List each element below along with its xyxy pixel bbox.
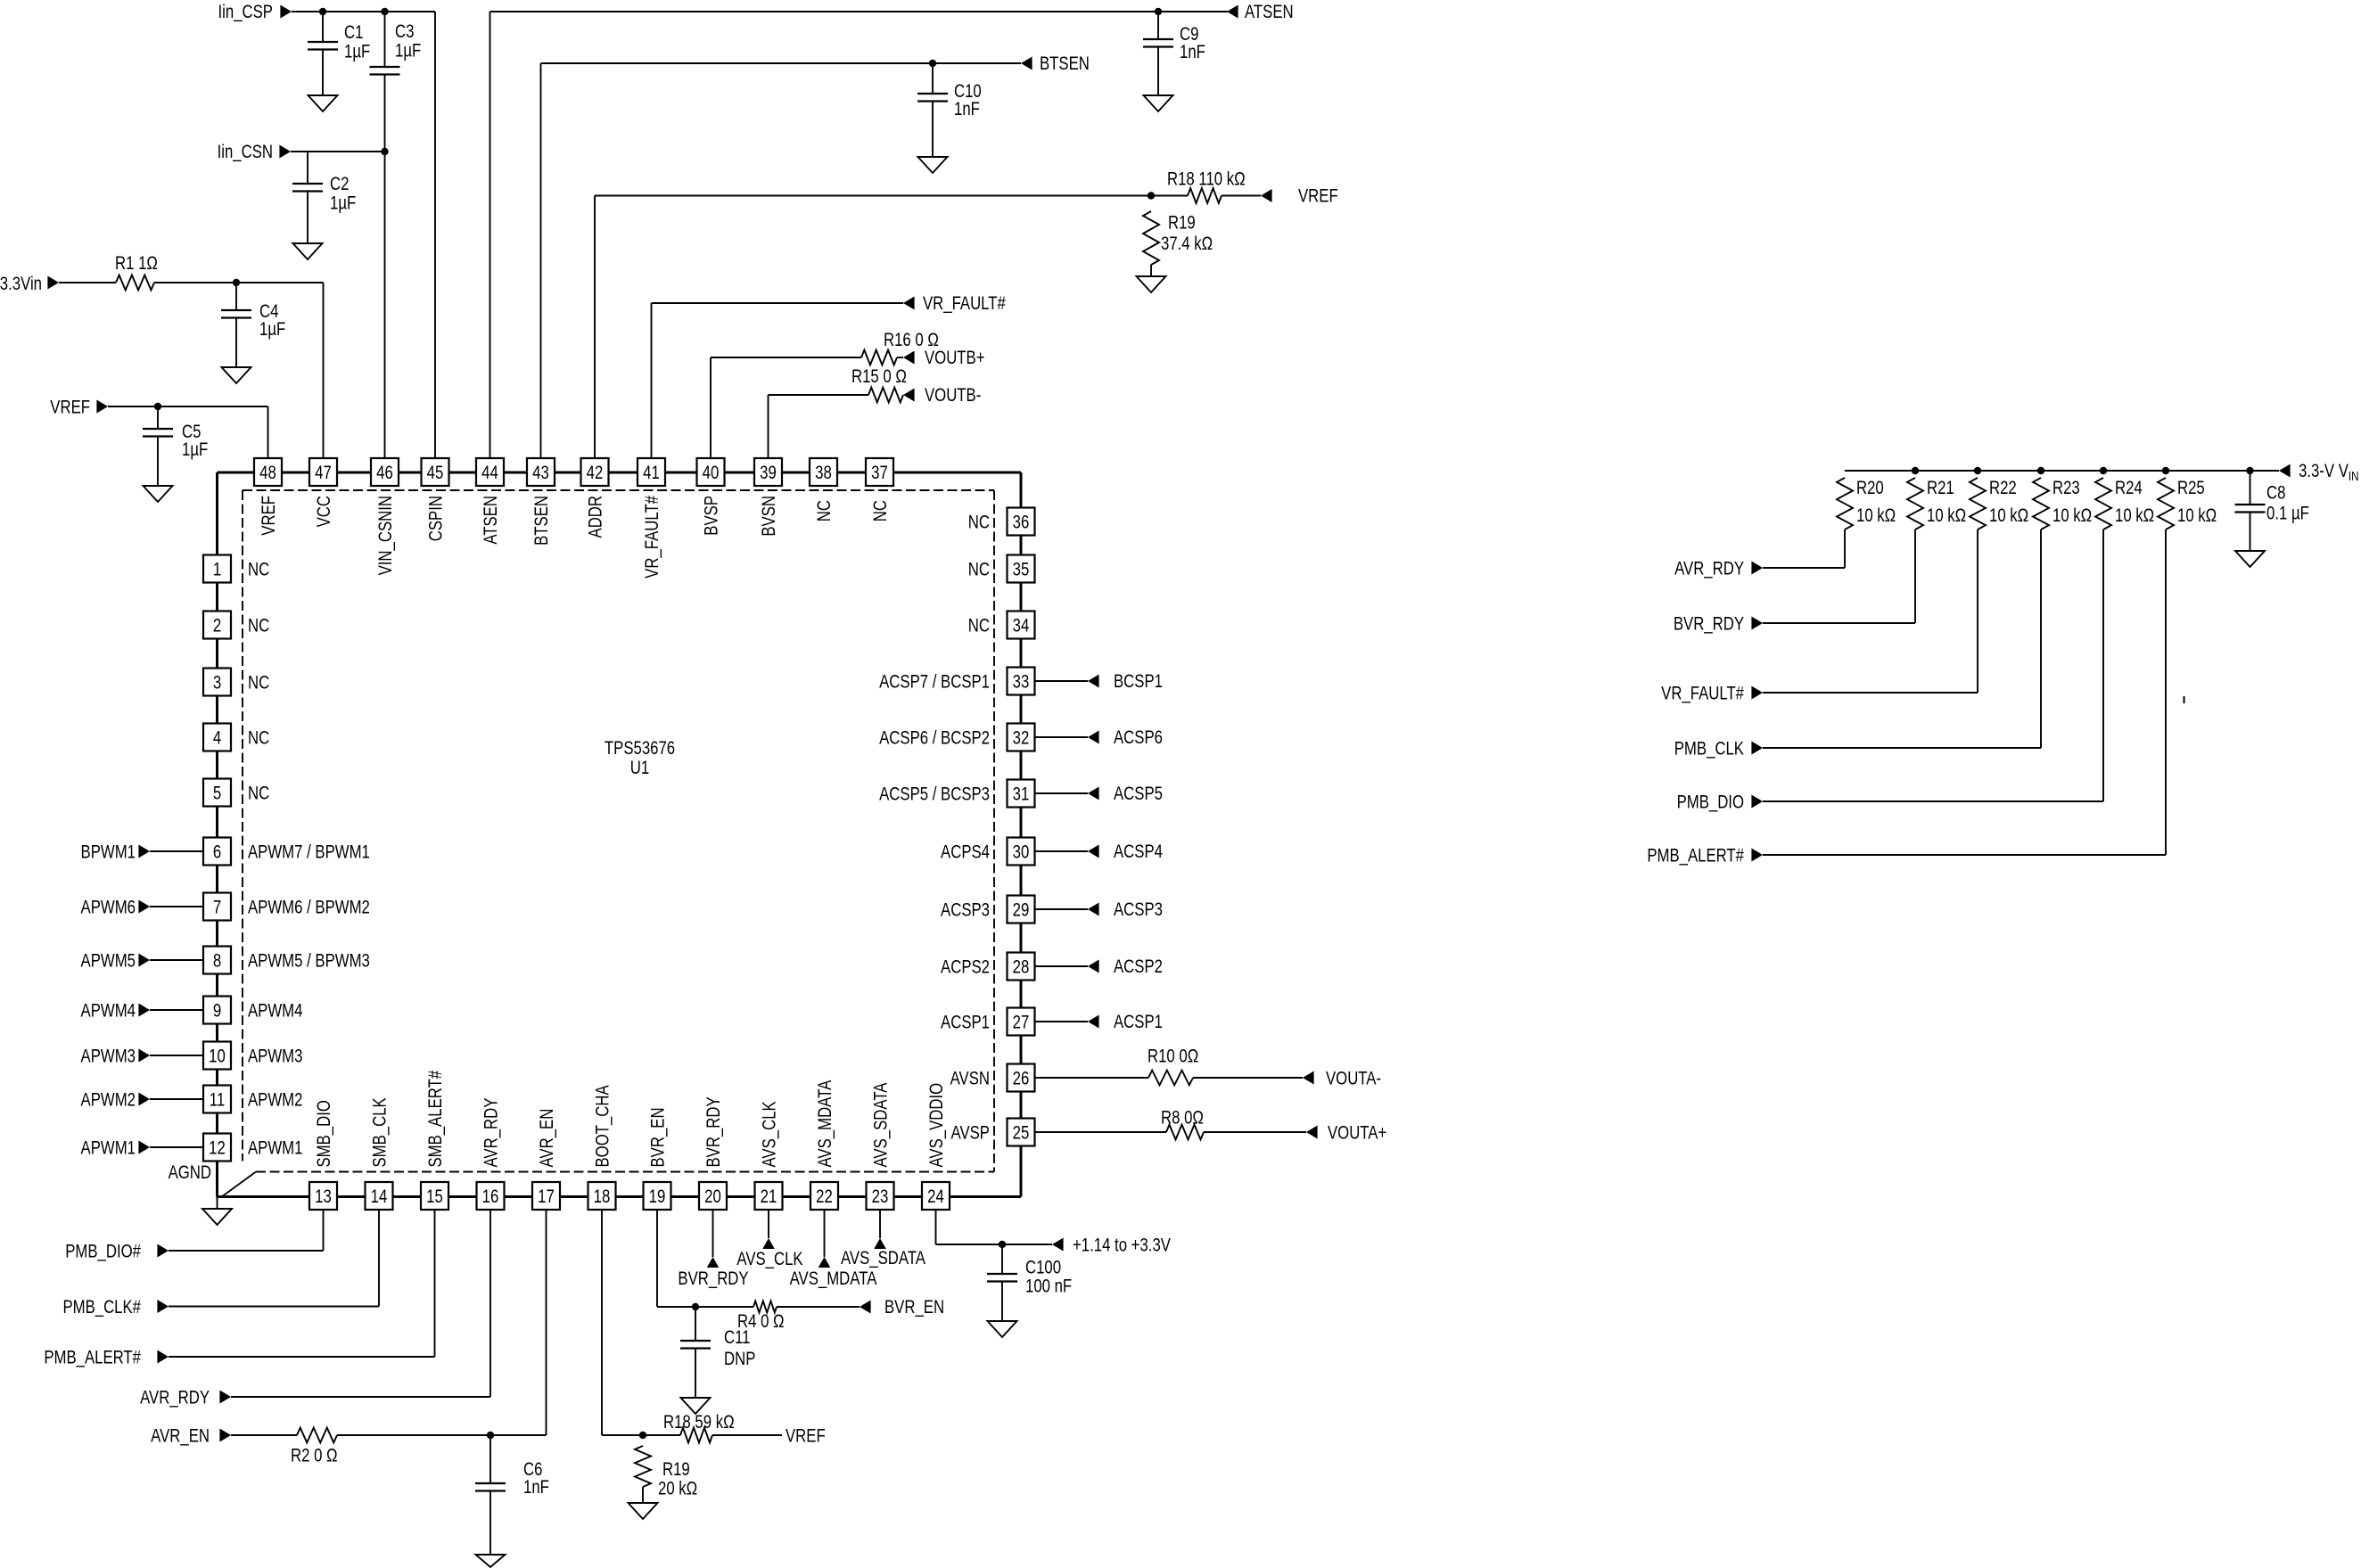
svg-text:4: 4 (213, 728, 222, 749)
svg-text:ACSP3: ACSP3 (1114, 899, 1163, 920)
svg-text:C2: C2 (330, 174, 349, 194)
svg-text:R2 0 Ω: R2 0 Ω (291, 1446, 338, 1466)
svg-text:32: 32 (1013, 728, 1030, 749)
svg-text:APWM4: APWM4 (81, 1001, 136, 1022)
svg-text:R22: R22 (1989, 478, 2017, 498)
svg-text:BVR_RDY: BVR_RDY (703, 1096, 724, 1167)
svg-text:VR_FAULT#: VR_FAULT# (1661, 684, 1744, 704)
svg-text:ACSP1: ACSP1 (1114, 1012, 1163, 1032)
svg-text:34: 34 (1013, 616, 1030, 636)
svg-text:28: 28 (1013, 957, 1030, 978)
svg-text:AVR_RDY: AVR_RDY (1674, 559, 1744, 579)
svg-text:27: 27 (1013, 1013, 1030, 1033)
svg-text:AVSN: AVSN (950, 1069, 990, 1089)
svg-text:43: 43 (532, 463, 549, 483)
svg-text:VOUTA+: VOUTA+ (1328, 1123, 1386, 1144)
svg-text:47: 47 (315, 463, 332, 483)
svg-text:26: 26 (1013, 1069, 1030, 1089)
svg-text:ACSP6: ACSP6 (1114, 727, 1163, 748)
svg-text:VREF: VREF (259, 496, 279, 536)
svg-text:11: 11 (210, 1090, 225, 1111)
svg-text:APWM7 / BPWM1: APWM7 / BPWM1 (248, 842, 370, 863)
svg-text:APWM6 / BPWM2: APWM6 / BPWM2 (248, 898, 370, 918)
svg-text:Iin_CSP: Iin_CSP (218, 2, 273, 22)
svg-text:BVR_RDY: BVR_RDY (678, 1268, 748, 1289)
svg-text:20: 20 (704, 1186, 721, 1207)
svg-text:AVR_RDY: AVR_RDY (140, 1388, 210, 1408)
svg-text:ATSEN: ATSEN (481, 496, 501, 545)
svg-text:C1: C1 (344, 22, 363, 43)
svg-text:Iin_CSN: Iin_CSN (218, 142, 273, 162)
svg-text:1nF: 1nF (954, 99, 980, 119)
svg-text:48: 48 (259, 463, 276, 483)
svg-text:29: 29 (1013, 900, 1030, 921)
svg-text:10 kΩ: 10 kΩ (2053, 505, 2092, 526)
svg-text:35: 35 (1013, 560, 1030, 580)
svg-text:C3: C3 (395, 21, 414, 42)
svg-text:AVS_CLK: AVS_CLK (736, 1249, 802, 1269)
svg-text:AVS_SDATA: AVS_SDATA (841, 1248, 925, 1268)
svg-text:0.1 µF: 0.1 µF (2266, 504, 2309, 524)
svg-text:1: 1 (213, 560, 221, 580)
svg-text:ACPS2: ACPS2 (941, 957, 990, 978)
svg-text:AGND: AGND (169, 1162, 211, 1183)
svg-text:VOUTB-: VOUTB- (925, 385, 981, 406)
svg-text:BTSEN: BTSEN (1040, 53, 1090, 74)
svg-text:BVSN: BVSN (759, 496, 779, 537)
svg-text:VREF: VREF (786, 1426, 826, 1447)
svg-text:18: 18 (594, 1186, 611, 1207)
svg-text:CSPIN: CSPIN (426, 496, 447, 541)
svg-text:19: 19 (649, 1186, 666, 1207)
svg-text:BVR_EN: BVR_EN (648, 1107, 669, 1167)
svg-text:C11: C11 (724, 1327, 751, 1348)
svg-text:BTSEN: BTSEN (531, 496, 552, 546)
svg-text:AVSP: AVSP (951, 1123, 990, 1144)
svg-text:ACSP5: ACSP5 (1114, 784, 1163, 804)
svg-text:7: 7 (213, 898, 221, 918)
svg-text:C100: C100 (1025, 1258, 1061, 1278)
svg-text:BOOT_CHA: BOOT_CHA (593, 1085, 613, 1167)
svg-text:ATSEN: ATSEN (1245, 2, 1294, 22)
svg-text:ADDR: ADDR (586, 496, 606, 538)
svg-text:1µF: 1µF (259, 319, 285, 340)
svg-text:R24: R24 (2115, 478, 2143, 498)
svg-text:10 kΩ: 10 kΩ (2177, 505, 2217, 526)
svg-text:10 kΩ: 10 kΩ (1989, 505, 2028, 526)
svg-text:AVS_CLK: AVS_CLK (760, 1101, 780, 1167)
svg-text:3.3Vin: 3.3Vin (0, 274, 42, 294)
svg-text:2: 2 (213, 616, 221, 636)
svg-text:NC: NC (870, 500, 891, 521)
svg-text:14: 14 (371, 1186, 388, 1207)
svg-text:39: 39 (760, 463, 777, 483)
svg-text:BPWM1: BPWM1 (81, 842, 136, 863)
svg-text:40: 40 (703, 463, 720, 483)
svg-text:3: 3 (213, 673, 221, 694)
svg-text:1µF: 1µF (330, 193, 356, 214)
svg-text:NC: NC (968, 560, 990, 580)
svg-text:44: 44 (481, 463, 498, 483)
svg-text:ACPS4: ACPS4 (941, 842, 990, 863)
svg-text:10: 10 (209, 1047, 226, 1067)
svg-text:22: 22 (816, 1186, 833, 1207)
svg-text:ACSP6 / BCSP2: ACSP6 / BCSP2 (879, 728, 990, 749)
svg-text:37.4 kΩ: 37.4 kΩ (1161, 234, 1213, 254)
svg-text:37: 37 (871, 463, 888, 483)
svg-text:AVS_MDATA: AVS_MDATA (815, 1080, 835, 1168)
svg-text:PMB_CLK: PMB_CLK (1674, 739, 1744, 759)
svg-text:AVS_MDATA: AVS_MDATA (790, 1268, 877, 1289)
svg-text:PMB_ALERT#: PMB_ALERT# (1647, 846, 1744, 866)
svg-text:R20: R20 (1856, 478, 1884, 498)
svg-text:U1: U1 (630, 758, 649, 778)
svg-text:46: 46 (376, 463, 393, 483)
svg-text:VOUTB+: VOUTB+ (925, 348, 985, 368)
svg-text:R19: R19 (662, 1459, 690, 1480)
svg-text:10 kΩ: 10 kΩ (1856, 505, 1896, 526)
svg-text:TPS53676: TPS53676 (605, 738, 675, 759)
svg-text:1nF: 1nF (1180, 42, 1205, 62)
svg-text:BVR_EN: BVR_EN (884, 1297, 944, 1318)
svg-text:36: 36 (1013, 513, 1030, 533)
svg-text:PMB_ALERT#: PMB_ALERT# (44, 1348, 141, 1368)
svg-text:APWM3: APWM3 (81, 1047, 136, 1067)
svg-text:31: 31 (1013, 784, 1030, 805)
svg-text:1µF: 1µF (182, 439, 208, 460)
svg-text:23: 23 (872, 1186, 889, 1207)
svg-text:13: 13 (315, 1186, 332, 1207)
svg-text:ACSP7 / BCSP1: ACSP7 / BCSP1 (879, 672, 990, 693)
svg-text:NC: NC (248, 560, 269, 580)
svg-text:PMB_DIO: PMB_DIO (1677, 792, 1744, 813)
svg-text:NC: NC (248, 616, 269, 636)
svg-text:VREF: VREF (50, 398, 90, 418)
svg-text:VR_FAULT#: VR_FAULT# (642, 496, 662, 579)
svg-text:NC: NC (248, 673, 269, 694)
svg-text:100 nF: 100 nF (1025, 1277, 1072, 1297)
svg-text:R21: R21 (1927, 478, 1954, 498)
svg-text:5: 5 (213, 784, 221, 804)
svg-text:33: 33 (1013, 672, 1030, 693)
svg-text:NC: NC (814, 500, 835, 521)
svg-text:AVR_RDY: AVR_RDY (481, 1097, 502, 1167)
svg-text:8: 8 (213, 951, 221, 972)
svg-text:10 kΩ: 10 kΩ (2115, 505, 2154, 526)
svg-text:ACSP4: ACSP4 (1114, 841, 1163, 862)
svg-text:PMB_CLK#: PMB_CLK# (62, 1297, 141, 1318)
svg-text:R10 0Ω: R10 0Ω (1148, 1047, 1198, 1067)
svg-text:15: 15 (426, 1186, 443, 1207)
svg-text:APWM2: APWM2 (248, 1090, 302, 1111)
svg-text:42: 42 (587, 463, 604, 483)
svg-text:ACSP2: ACSP2 (1114, 956, 1163, 977)
svg-text:VREF: VREF (1298, 186, 1338, 207)
svg-text:17: 17 (538, 1186, 555, 1207)
svg-text:NC: NC (968, 616, 990, 636)
svg-text:VOUTA-: VOUTA- (1326, 1069, 1381, 1089)
svg-text:SMB_CLK: SMB_CLK (370, 1097, 391, 1167)
svg-text:BVSP: BVSP (702, 496, 722, 536)
svg-text:ACSP5 / BCSP3: ACSP5 / BCSP3 (879, 784, 990, 805)
svg-text:38: 38 (815, 463, 832, 483)
svg-text:R19: R19 (1168, 213, 1196, 234)
svg-text:R15 0 Ω: R15 0 Ω (851, 366, 907, 387)
svg-text:R23: R23 (2053, 478, 2080, 498)
svg-text:VR_FAULT#: VR_FAULT# (923, 293, 1006, 314)
svg-text:APWM5 / BPWM3: APWM5 / BPWM3 (248, 951, 370, 972)
svg-text:AVS_SDATA: AVS_SDATA (871, 1082, 892, 1167)
svg-text:APWM3: APWM3 (248, 1047, 302, 1067)
svg-text:BVR_RDY: BVR_RDY (1674, 614, 1744, 635)
svg-text:APWM6: APWM6 (81, 898, 136, 918)
svg-text:25: 25 (1013, 1123, 1030, 1144)
svg-text:R1 1Ω: R1 1Ω (115, 253, 158, 274)
svg-text:9: 9 (213, 1001, 221, 1022)
svg-text:SMB_DIO: SMB_DIO (314, 1100, 334, 1167)
svg-text:30: 30 (1013, 842, 1030, 863)
svg-text:APWM5: APWM5 (81, 951, 136, 972)
svg-text:41: 41 (643, 463, 660, 483)
svg-text:SMB_ALERT#: SMB_ALERT# (425, 1071, 446, 1168)
svg-text:10 kΩ: 10 kΩ (1927, 505, 1966, 526)
svg-text:12: 12 (209, 1138, 226, 1159)
svg-text:NC: NC (968, 513, 990, 533)
svg-text:NC: NC (248, 728, 269, 749)
svg-text:APWM1: APWM1 (248, 1138, 302, 1159)
svg-text:R25: R25 (2177, 478, 2205, 498)
svg-text:45: 45 (427, 463, 444, 483)
svg-text:VCC: VCC (314, 496, 334, 527)
svg-text:+1.14 to +3.3V: +1.14 to +3.3V (1073, 1236, 1171, 1256)
svg-text:APWM1: APWM1 (81, 1138, 136, 1159)
svg-text:BCSP1: BCSP1 (1114, 671, 1163, 692)
svg-text:APWM2: APWM2 (81, 1090, 136, 1111)
svg-text:DNP: DNP (724, 1349, 755, 1369)
svg-text:21: 21 (761, 1186, 777, 1207)
svg-text:VIN_CSNIN: VIN_CSNIN (375, 496, 396, 575)
svg-text:20 kΩ: 20 kΩ (658, 1479, 697, 1499)
svg-text:R18 110 kΩ: R18 110 kΩ (1167, 169, 1246, 190)
svg-text:NC: NC (248, 784, 269, 804)
svg-text:16: 16 (482, 1186, 499, 1207)
svg-text:1µF: 1µF (395, 41, 421, 62)
svg-text:24: 24 (927, 1186, 944, 1207)
svg-text:C8: C8 (2266, 483, 2285, 504)
svg-text:AVR_EN: AVR_EN (537, 1109, 557, 1168)
svg-text:AVS_VDDIO: AVS_VDDIO (926, 1083, 947, 1168)
svg-text:1µF: 1µF (344, 42, 370, 62)
svg-text:PMB_DIO#: PMB_DIO# (65, 1242, 141, 1262)
svg-text:AVR_EN: AVR_EN (151, 1426, 210, 1447)
svg-text:ACSP3: ACSP3 (941, 900, 990, 921)
svg-text:APWM4: APWM4 (248, 1001, 303, 1022)
svg-text:1nF: 1nF (523, 1477, 549, 1498)
svg-text:ACSP1: ACSP1 (941, 1013, 990, 1033)
svg-text:R18 59 kΩ: R18 59 kΩ (663, 1412, 735, 1433)
svg-text:6: 6 (213, 842, 221, 863)
